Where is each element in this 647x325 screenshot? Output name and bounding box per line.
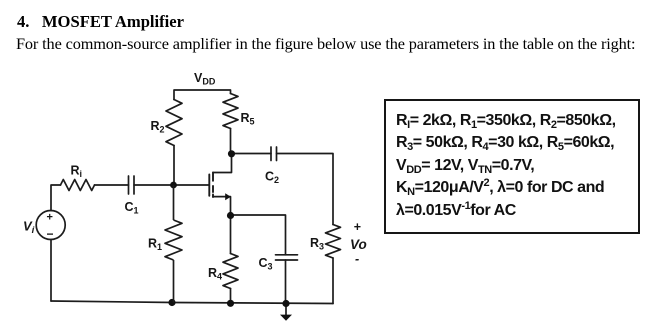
- svg-text:Vo: Vo: [350, 237, 367, 252]
- node rail R1: [168, 299, 175, 306]
- resistor R2: [166, 100, 182, 146]
- svg-text:+: +: [47, 212, 53, 224]
- node gate junction: [170, 182, 177, 189]
- svg-text:C1: C1: [125, 200, 139, 216]
- svg-text:R3: R3: [310, 236, 324, 252]
- resistor R4: [223, 254, 238, 289]
- wire source node to R4: [230, 216, 232, 254]
- svg-text:R4: R4: [208, 266, 222, 282]
- wire gate node to R1: [173, 185, 175, 220]
- svg-text:+: +: [354, 220, 362, 234]
- transistor M1 source arrow: [225, 193, 231, 200]
- transistor M1 channel bar (dashed): [212, 173, 214, 198]
- wire C2 to R3 top: [277, 154, 334, 225]
- wire bottom ground rail: [51, 301, 333, 304]
- wire gate: C1 to MOSFET gate bar: [134, 184, 209, 186]
- wire Vi bottom lead: [50, 240, 52, 302]
- wire R3 bottom to ground rail: [332, 258, 334, 304]
- resistor R3: [326, 225, 341, 259]
- wire ground stem: [285, 304, 287, 316]
- heading line 1: [17, 12, 184, 32]
- node rail R4: [227, 300, 234, 307]
- wire C3 bottom to ground rail: [285, 260, 287, 304]
- resistor R1: [165, 220, 182, 260]
- node drain junction: [228, 150, 235, 157]
- svg-text:Ri: Ri: [71, 164, 83, 180]
- node source junction: [227, 212, 234, 219]
- heading line 2: [16, 34, 635, 54]
- svg-text:R2: R2: [151, 119, 165, 135]
- svg-text:C2: C2: [265, 170, 279, 186]
- capacitor C2: [271, 147, 277, 161]
- capacitor C3: [276, 255, 298, 260]
- svg-text:R5: R5: [241, 111, 255, 127]
- capacitor C1: [129, 176, 135, 194]
- parameter table box: [384, 99, 640, 234]
- svg-text:Vi: Vi: [23, 219, 35, 237]
- wire R1 bottom to rail: [173, 260, 175, 303]
- svg-text:R1: R1: [148, 237, 162, 253]
- svg-text:VDD: VDD: [194, 71, 216, 87]
- wire R2 bottom to gate node: [173, 146, 175, 186]
- wire Ri to C1: [95, 184, 129, 186]
- svg-text:C3: C3: [259, 256, 273, 272]
- resistor R5: [223, 94, 238, 129]
- wire drain node to MOSFET drain: [213, 154, 232, 173]
- node rail ground: [282, 300, 289, 307]
- wire drain node to C2: [232, 153, 272, 155]
- wire source node to C3: [231, 215, 286, 255]
- transistor M1 source lead: [213, 197, 231, 216]
- resistor Ri: [61, 180, 95, 191]
- wire Vi top lead: [51, 185, 61, 211]
- svg-text:−: −: [47, 227, 54, 241]
- svg-text:-: -: [355, 252, 359, 266]
- wire R5 bottom to drain node: [230, 129, 232, 154]
- source Vi circle: [36, 211, 65, 240]
- wire top VDD rail: [174, 90, 231, 100]
- transistor M1 gate bar: [208, 175, 210, 196]
- ground symbol: [280, 315, 292, 321]
- wire R4 bottom to ground rail: [230, 289, 232, 304]
